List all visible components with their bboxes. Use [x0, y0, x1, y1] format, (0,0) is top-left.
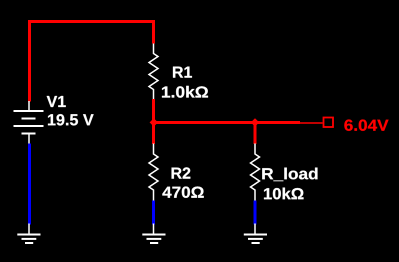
junction node at R_load: [251, 118, 259, 126]
resistor R2: [149, 144, 158, 201]
ground (battery): [17, 224, 40, 244]
wire: R2 bottom to ground (blue): [152, 201, 155, 225]
value 19.5 V: [48, 114, 94, 125]
wire: thin probe lead (red): [300, 122, 323, 124]
resistor R_load: [251, 144, 260, 201]
value 470Ω: [162, 187, 203, 198]
battery V1: [14, 101, 44, 144]
label R_load: [262, 168, 317, 182]
ground (R_load): [244, 224, 267, 244]
wire: battery negative to ground (blue): [28, 144, 31, 225]
value 1.0kΩ: [162, 86, 208, 98]
wire: R_load bottom to ground (blue): [254, 201, 257, 225]
probe terminal square: [324, 118, 334, 128]
resistor R1: [149, 44, 158, 100]
wire: battery positive up, across top, down to R1 (red): [30, 22, 154, 102]
wire: output bus from R1/R2 node to probe (red): [152, 121, 300, 124]
probe voltage 6.04V: [344, 120, 388, 131]
label R2: [172, 167, 191, 178]
label V1: [47, 96, 66, 107]
ground (R2): [142, 224, 165, 244]
value 10kΩ: [264, 188, 303, 200]
label R1: [173, 67, 192, 78]
wire: R1 bottom through node to R2 top (red): [152, 99, 155, 144]
junction node at R1/R2: [150, 118, 158, 126]
wire: node down to R_load (red): [254, 123, 257, 145]
